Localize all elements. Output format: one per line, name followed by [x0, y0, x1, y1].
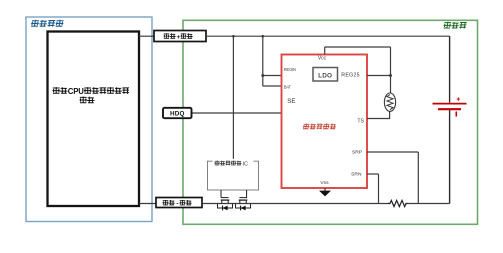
svg-text:-: -: [176, 200, 178, 207]
pin label Vcc: [318, 56, 327, 62]
junction REGIN node: [261, 74, 264, 77]
svg-text:+: +: [456, 96, 460, 103]
wire gate lead Q1: [220, 190, 222, 198]
svg-text:SRN: SRN: [351, 172, 362, 178]
wire SRP pin: [367, 152, 418, 204]
battery cell BT1: [433, 96, 467, 116]
svg-text:+: +: [177, 34, 181, 41]
pin label SRN: [351, 172, 362, 178]
svg-text:IC: IC: [243, 161, 248, 167]
wire host to battery- terminal: [139, 203, 156, 205]
svg-text:REGIN: REGIN: [284, 67, 296, 72]
wire REG25 junction drop: [390, 47, 392, 93]
battery pack outer box (电池组): [183, 20, 478, 224]
wire top rail PACK+: [206, 35, 450, 37]
pin label REGIN: [284, 67, 296, 72]
wire to REGIN pin: [263, 75, 282, 77]
svg-text:Vcc: Vcc: [318, 56, 327, 62]
pin label SE: [287, 98, 295, 105]
pin label BAT: [284, 84, 292, 89]
pin label REG25: [341, 73, 360, 79]
host CPU label line1: [53, 87, 130, 96]
svg-text:Vss: Vss: [320, 180, 329, 186]
svg-text:HDQ: HDQ: [170, 111, 185, 118]
wire SRN pin: [367, 174, 379, 204]
wire gate lead Q2: [246, 190, 248, 198]
mask under sense resistor: [390, 202, 407, 205]
wire battery rail lower: [449, 110, 451, 204]
IC name 电量监测计 (fuel gauge, red italic): [303, 124, 337, 130]
svg-text:LDO: LDO: [318, 73, 332, 80]
host CPU label line2 (制器): [80, 97, 95, 104]
wire protection IC supply drop: [232, 36, 234, 161]
wire Vcc link horizontal: [325, 46, 391, 48]
wire HDQ to SE pin: [192, 112, 282, 114]
svg-text:SE: SE: [287, 98, 295, 105]
fuel gauge IC U1 (red box): [282, 55, 368, 189]
HDQ interface box: [163, 108, 192, 118]
label 电池组 (battery pack): [443, 22, 467, 29]
wire bottom rail PACK-: [202, 203, 450, 205]
junction REG25 node: [389, 74, 392, 77]
MOSFET Q2: [236, 198, 251, 211]
wire REGIN/BAT drop: [262, 36, 264, 86]
svg-text:SRP: SRP: [352, 150, 362, 156]
wire thermistor to TS corner: [367, 111, 390, 118]
LDO block: [313, 68, 338, 82]
wire host to battery+ terminal: [139, 35, 154, 37]
svg-text:BAT: BAT: [284, 84, 292, 89]
svg-text:TS: TS: [357, 118, 364, 124]
junction top rail at x263: [262, 35, 265, 38]
wire battery rail upper: [449, 36, 451, 102]
pin label Vss: [320, 180, 329, 186]
wire REG25 pin: [367, 75, 391, 77]
battery + terminal box (电池+端子): [154, 31, 206, 42]
svg-text:CPU: CPU: [68, 87, 84, 96]
MOSFET Q1: [218, 198, 233, 211]
sense resistor R1: [389, 200, 408, 206]
protection box label: [213, 159, 254, 168]
wire Vcc pin up: [324, 47, 326, 55]
thermistor RT1: [384, 93, 395, 111]
wire to BAT pin: [263, 85, 282, 87]
label 主机系统 (host system): [31, 20, 64, 27]
host CPU block (主机CPU或电源管理控制器): [48, 32, 140, 207]
svg-text:REG25: REG25: [341, 73, 360, 79]
protection circuit box (保护电路IC): [208, 161, 259, 190]
host system outer box (主机系统): [26, 17, 152, 222]
ground at Vss: [319, 189, 331, 197]
junction top rail at x233: [232, 35, 235, 38]
pin label TS: [357, 118, 364, 124]
battery - terminal box (电池-端子): [156, 198, 202, 208]
pin label SRP: [352, 150, 362, 156]
